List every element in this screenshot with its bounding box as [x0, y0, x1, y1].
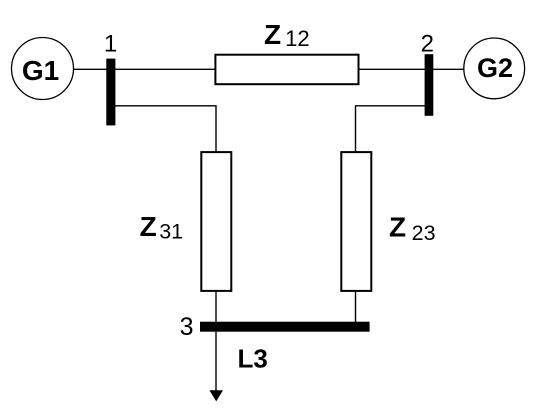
bus 2: [425, 54, 434, 116]
svg-text:L3: L3: [238, 344, 268, 374]
bus 1: [106, 59, 115, 126]
impedance Z31: [201, 152, 231, 291]
bus 3: [200, 322, 370, 332]
wire Z23 to bus 3: [355, 291, 357, 323]
generator G2: [464, 38, 525, 99]
load L3 arrow: [209, 332, 223, 402]
impedance Z23: [341, 152, 371, 291]
wire Z12 to bus 2 to G2: [359, 68, 464, 70]
svg-text:G1: G1: [22, 55, 59, 86]
svg-text:G2: G2: [477, 53, 513, 83]
wire bus 1 to Z31: [112, 106, 216, 152]
wire bus 2 to Z23: [356, 106, 429, 152]
svg-text:2: 2: [421, 30, 434, 57]
svg-text:3: 3: [180, 313, 194, 341]
svg-text:1: 1: [104, 31, 117, 58]
generator G1: [12, 38, 74, 100]
impedance Z12: [215, 55, 358, 84]
wire Z31 to bus 3: [215, 291, 217, 323]
wire G1 to bus 1 to Z12: [74, 68, 216, 70]
